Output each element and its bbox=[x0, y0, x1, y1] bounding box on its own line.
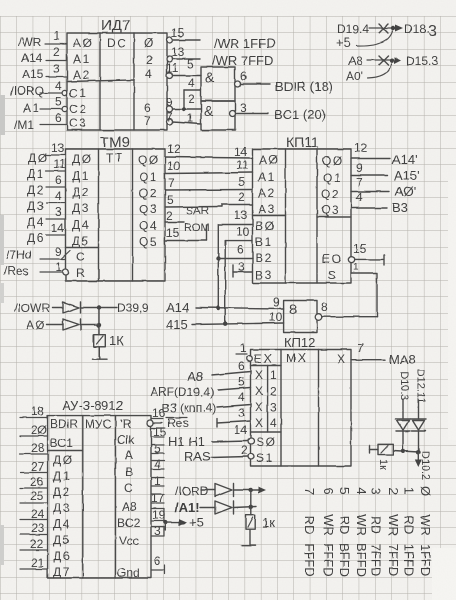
wire KP11 Q1 pin 9 to A15' bbox=[351, 161, 420, 183]
diode VD4 from D12.11 bbox=[411, 400, 426, 452]
AY left pin 22 D6 bbox=[20, 537, 48, 551]
decoder U1 ID7 body bbox=[67, 33, 167, 130]
wire TM9 Q5 pin 15 bbox=[165, 226, 207, 241]
net label BC1 (20) bbox=[274, 107, 326, 122]
AY pin 3 Vcc from +5 bbox=[151, 523, 165, 538]
node A0 with diode VD2 bbox=[26, 318, 99, 332]
and gate D1.2 output pin 3 to BC1 bbox=[230, 101, 269, 117]
bus table rotated address row bbox=[302, 543, 433, 577]
AY left pin 18 BDIR bbox=[20, 404, 48, 418]
resistor R3 1k bbox=[246, 515, 276, 530]
AY left pin 28 D0 bbox=[20, 441, 48, 455]
wire diode junction down to resistor bbox=[97, 308, 101, 335]
AY pin 1 C bbox=[151, 474, 164, 488]
node /IOWR with diode VD1 bbox=[14, 301, 117, 315]
and gate D1.1 output pin 6 to BDIR bbox=[235, 69, 271, 87]
multiplexer U4 KP12 body bbox=[251, 350, 352, 467]
KP12 EX enable pin 1 bubble bbox=[236, 341, 252, 361]
output pin 11 wire to gate input 5 bbox=[166, 57, 201, 79]
note A8 cut and rewire to D15.3 bbox=[348, 54, 438, 68]
net label SAR bbox=[186, 205, 209, 217]
wire TM9 Q3 pin 5 to KP11 pin 2 with SAR label bbox=[165, 190, 253, 207]
AY pin 19 BC2 to +5 bbox=[151, 508, 204, 530]
note +5 with curved arrow bbox=[336, 31, 393, 50]
wire TM9 Q0 pin 12 to KP11 pin 14 bbox=[165, 142, 253, 159]
node D1 input pin 11 bbox=[27, 157, 66, 181]
node D2 input pin 6 bbox=[27, 173, 66, 197]
wire ARF(D19.4) to KP12 pin 5 bbox=[150, 375, 251, 399]
wire open terminal to KP12 pin 3 bbox=[217, 406, 251, 427]
net label D39,9 bbox=[117, 301, 149, 315]
AY pin 5 A with RAS label bbox=[151, 442, 211, 464]
node D0 input pin 13 bbox=[28, 141, 66, 165]
and gate D1.2 bbox=[201, 101, 235, 130]
junction dot B2 branch bbox=[216, 256, 220, 260]
output pin 9 wire with junction to gate inputs 4 and 2 bbox=[166, 76, 201, 112]
node A15 input pin 3 bbox=[22, 62, 67, 81]
KP11 EO pin 15 wire bbox=[348, 242, 384, 273]
bus table rotated RD WR row bbox=[302, 514, 433, 536]
junction dot bus2 to gate pin 10 bbox=[223, 322, 227, 326]
wire TM9 Q1 pin 10 to KP11 pin 11 bbox=[165, 158, 253, 174]
node /IORQ input pin 4 bbox=[10, 79, 67, 98]
diode VD3 from D10.3 bbox=[396, 400, 411, 451]
AY left pin 24 D4 bbox=[20, 507, 48, 521]
output pin 7 wire to gate input 1 bbox=[166, 110, 201, 125]
output pin 15 wire to /WR 1FFD bbox=[167, 26, 201, 43]
wire resistor to diode junctions with arrow down D10.2 bbox=[393, 449, 422, 467]
net label ROM bbox=[184, 222, 210, 234]
gate D15.3 input 9 wire from A14 bbox=[166, 295, 284, 315]
node A1 input pin 5 bbox=[23, 95, 67, 115]
wire diode junction down to R3 bbox=[249, 490, 253, 515]
AY left pin 23 D5 bbox=[20, 521, 48, 535]
AY pin 16 reset bubble and Res label bbox=[147, 406, 188, 430]
AY pin 15 Clk with H1 label bbox=[151, 425, 205, 449]
note D19.4 cut and rewire to D18.3 bbox=[337, 22, 437, 40]
sound chip U5 AY-3-8912 body bbox=[48, 416, 151, 580]
wire KP11 Q3 pin 4 to B3 bbox=[351, 190, 408, 215]
wire KP11 Q0 pin 12 to A14' bbox=[351, 141, 418, 167]
rotated net label D10.2 bbox=[419, 451, 431, 480]
node /Res reset input pin 1 bbox=[4, 260, 68, 278]
KP12 S1 pin 2 bubble wire from RAS bbox=[211, 443, 254, 460]
junction dot bus1 to gate pin 9 bbox=[216, 306, 220, 310]
AY pin 6 Gnd with open terminal bbox=[151, 554, 165, 574]
node /M1 input pin 6 bbox=[14, 111, 67, 132]
wire TM9 Q2 pin 7 to KP11 pin 5 bbox=[165, 175, 253, 190]
register U2 TM9 title bbox=[100, 134, 130, 151]
node D6 input pin 14 bbox=[27, 221, 66, 245]
wire vertical bus to B1 and gate pin 10 bbox=[225, 225, 252, 324]
arrow right from diode junction bbox=[249, 487, 266, 494]
nand gate D15.3 body bbox=[284, 301, 317, 333]
net label /WR 7FFD bbox=[212, 53, 273, 68]
ground below R1 bbox=[93, 347, 108, 360]
wire A8 to KP12 pin 6 bbox=[187, 359, 251, 384]
resistor R1 1K bbox=[94, 333, 125, 348]
node /A1 with diode VD6 bbox=[175, 500, 256, 515]
node /7Nd clock input pin 9 bbox=[6, 245, 66, 262]
gate D15.3 input 10 wire from A15 bbox=[166, 310, 284, 332]
AY left pin 26 D2 bbox=[20, 475, 48, 489]
output pin 13 wire to /WR 7FFD bbox=[167, 45, 201, 62]
decoder U1 ID7 title bbox=[101, 17, 130, 34]
node A14 input pin 2 bbox=[21, 45, 67, 65]
KP12 S0 pin 14 bubble wire from H1 bbox=[212, 423, 254, 444]
sound chip U5 AY-3-8912 title bbox=[62, 398, 123, 413]
register U2 TM9 body bbox=[62, 149, 166, 281]
rotated net label D10.3 bbox=[398, 371, 410, 400]
wire KP11 Q2 pin 7 to A0' bbox=[351, 175, 416, 199]
AY left pin 25 D3 bbox=[20, 489, 48, 503]
wire KP11 S row to gate D15.3 output bbox=[351, 273, 377, 317]
node /WR input pin 1 bbox=[18, 29, 67, 49]
KP12 output pin 7 wire to MA8 bbox=[351, 341, 416, 367]
bus table rotated column numbers bbox=[302, 486, 433, 496]
gate D15.3 output pin 8 bbox=[315, 300, 377, 320]
wire TM9 Q4 pin 2 ROM stub bbox=[165, 209, 207, 241]
node D3 input pin 4 bbox=[27, 189, 66, 213]
ground below R3 bbox=[242, 529, 256, 546]
net label BDIR (18) bbox=[275, 79, 333, 94]
and gate D1.1 bbox=[201, 67, 235, 101]
multiplexer U4 KP12 title bbox=[284, 335, 315, 350]
wire B3 (kp11.4) to KP12 pin 4 bbox=[162, 390, 251, 415]
wire B2 branch pin 6 bbox=[218, 242, 253, 259]
resistor R2 1k with lead bbox=[370, 444, 394, 470]
multiplexer U3 KP11 title bbox=[286, 134, 319, 150]
AY pin 4 B bbox=[151, 457, 164, 471]
AY left pin 20 BC1 bbox=[20, 423, 48, 437]
junction dot D39.9 node bbox=[97, 305, 101, 309]
AY left pin 21 D7 bbox=[20, 556, 48, 570]
rotated net label D12.11 bbox=[415, 369, 427, 404]
node /IORD with diode VD5 bbox=[175, 484, 251, 499]
wire B3 input pin 3 bbox=[233, 260, 253, 277]
AY left pin 27 D1 bbox=[20, 460, 48, 474]
net label /WR 1FFD bbox=[214, 36, 275, 51]
wire vertical bus to B0 and gate pin 9 bbox=[218, 208, 252, 309]
AY pin 17 A8 bbox=[151, 491, 165, 505]
note A0' with curved arrow bbox=[346, 64, 391, 83]
multiplexer U3 KP11 body bbox=[253, 149, 352, 283]
node D4 input pin 3 bbox=[27, 205, 66, 229]
